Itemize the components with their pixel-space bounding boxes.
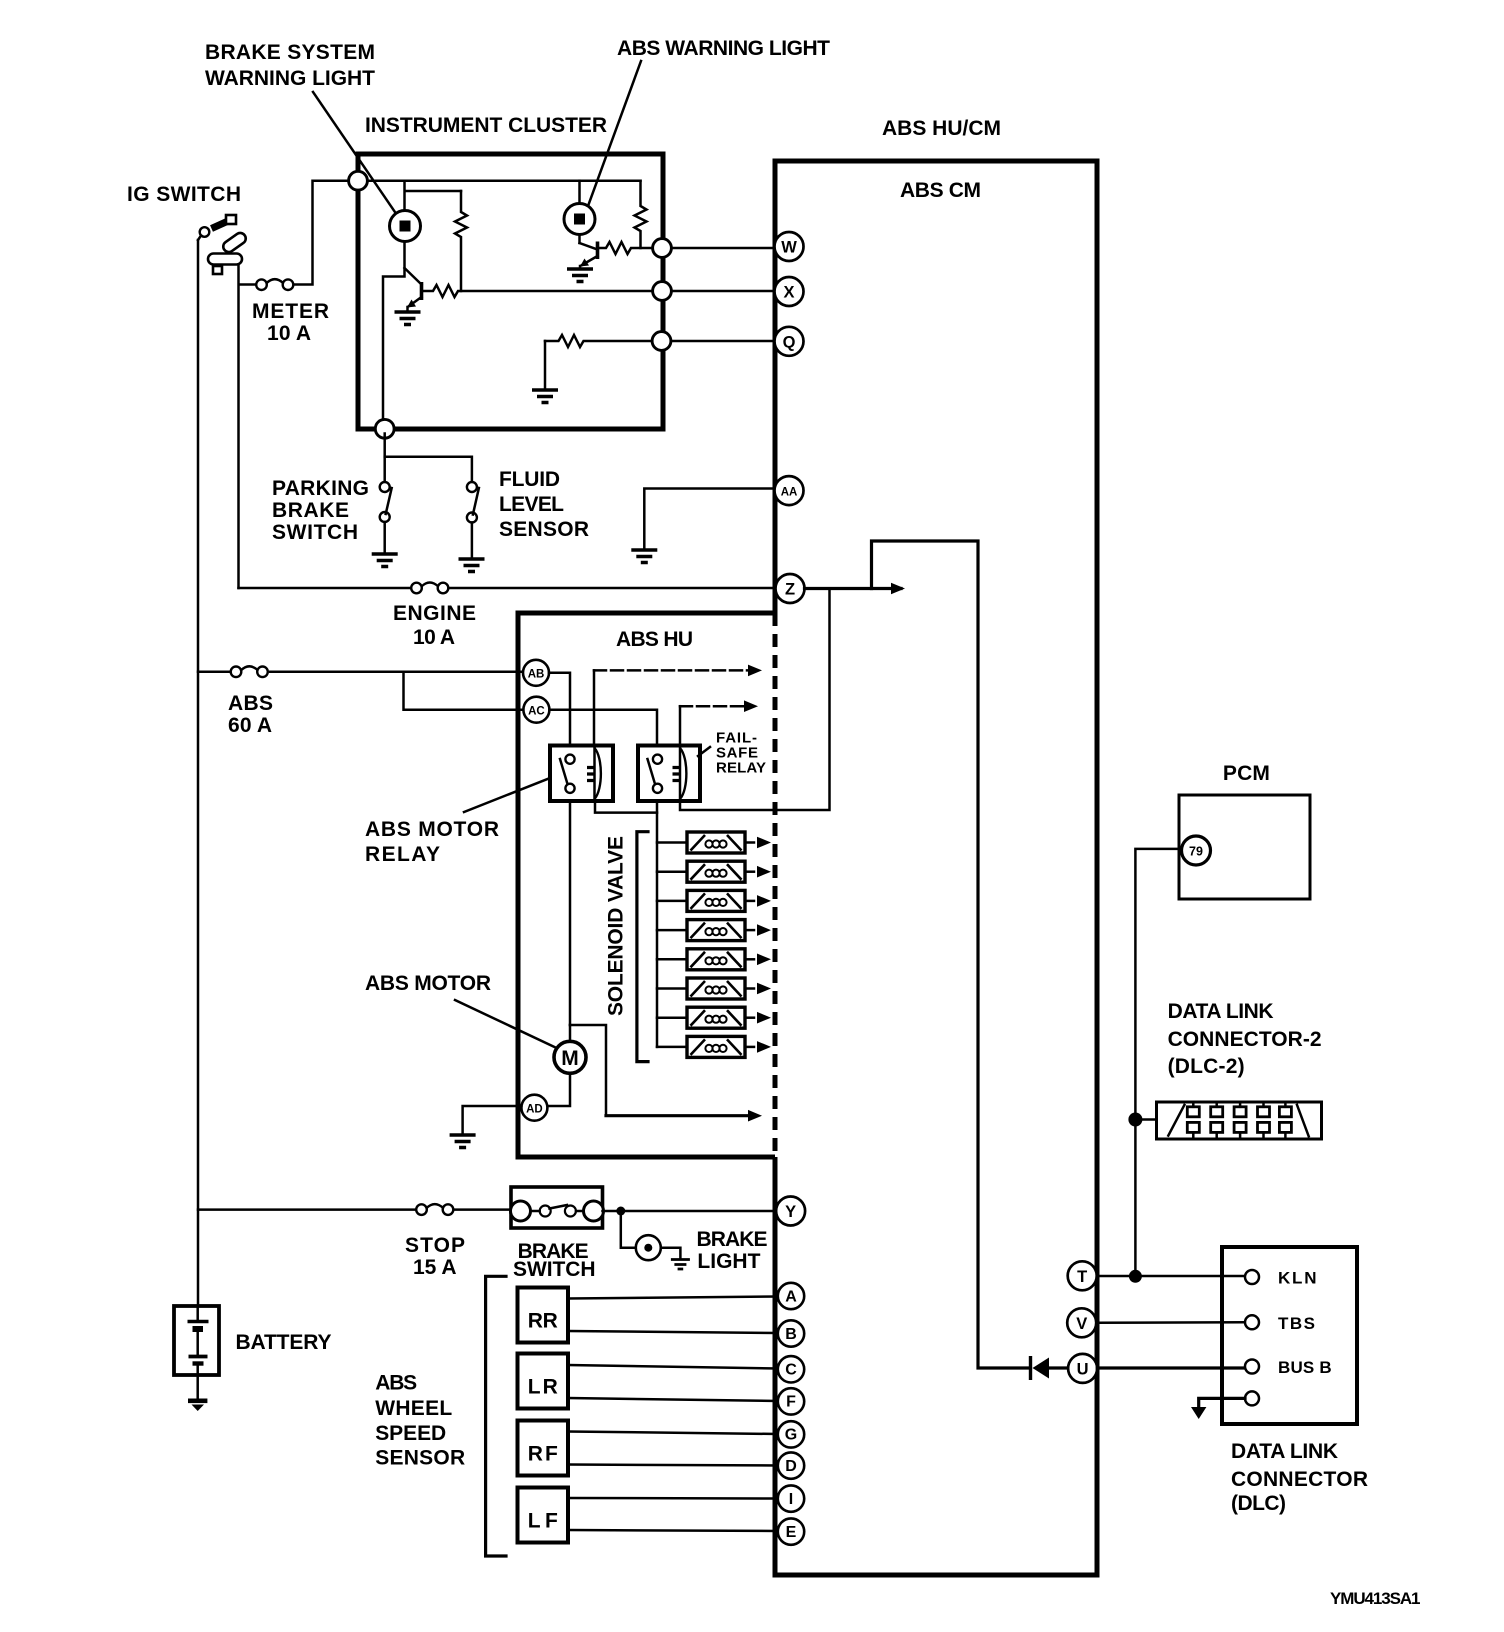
ground Q1 emitter xyxy=(395,312,421,325)
resistor R4 base W line xyxy=(598,242,667,254)
wire ABS 60A feed xyxy=(198,672,523,710)
svg-text:SWITCH: SWITCH xyxy=(513,1258,596,1281)
svg-text:(DLC-2): (DLC-2) xyxy=(1168,1055,1245,1078)
wire lamp1 bottom xyxy=(383,242,405,425)
svg-text:B: B xyxy=(785,1326,797,1343)
ABS HU/CM box xyxy=(775,161,1097,1575)
svg-text:WARNING LIGHT: WARNING LIGHT xyxy=(205,67,375,90)
connector A xyxy=(778,1283,804,1309)
junction DLC-2 xyxy=(1128,1113,1142,1127)
ground Q line xyxy=(532,390,558,403)
wire motor relay coil drive (dashed arrow) xyxy=(593,670,596,745)
svg-text:ABS HU: ABS HU xyxy=(616,628,693,651)
svg-text:ABS HU/CM: ABS HU/CM xyxy=(882,117,1001,140)
svg-text:PARKING: PARKING xyxy=(272,477,369,500)
fuse ENGINE 10A xyxy=(411,583,448,594)
wire solenoid arrow 3 xyxy=(746,900,758,903)
svg-text:(DLC): (DLC) xyxy=(1231,1492,1286,1515)
wire LR outputs xyxy=(568,1365,778,1401)
wire solenoid arrow 6 xyxy=(746,987,758,990)
node Q xyxy=(652,332,671,351)
wire V to TBS xyxy=(1096,1321,1245,1324)
wire brake light ground xyxy=(661,1248,680,1259)
wire engine line to Z xyxy=(239,587,776,590)
svg-text:DATA LINK: DATA LINK xyxy=(1168,1000,1274,1023)
wire solenoid stub 2 xyxy=(657,870,686,873)
wire solenoid stub 8 xyxy=(657,1046,686,1049)
svg-text:ABS WARNING LIGHT: ABS WARNING LIGHT xyxy=(617,37,830,60)
svg-text:LIGHT: LIGHT xyxy=(697,1250,760,1273)
wire Q ground stem xyxy=(544,341,547,389)
DLC-2 pin bottom xyxy=(1279,1122,1291,1132)
solenoid valve 8 xyxy=(687,1036,745,1057)
svg-text:BUS B: BUS B xyxy=(1278,1358,1332,1377)
connector F xyxy=(778,1388,804,1414)
junction T wire xyxy=(1129,1270,1142,1283)
connector C xyxy=(778,1356,804,1382)
svg-text:15 A: 15 A xyxy=(413,1256,457,1279)
svg-text:BRAKE: BRAKE xyxy=(697,1228,768,1251)
wire AB to motor relay switch xyxy=(549,673,570,746)
ground brake light xyxy=(671,1260,690,1270)
svg-text:KLN: KLN xyxy=(1278,1269,1317,1288)
connector AA xyxy=(775,476,804,505)
svg-text:TBS: TBS xyxy=(1278,1314,1315,1333)
wire solenoid stub 1 xyxy=(657,841,686,844)
solenoid valve 3 xyxy=(687,890,745,911)
wire Z up-over to U bus xyxy=(872,541,1030,1368)
relay ABS motor relay xyxy=(550,746,613,802)
svg-text:X: X xyxy=(783,284,794,302)
wire motor relay coil return xyxy=(595,801,657,813)
svg-text:BRAKE SYSTEM: BRAKE SYSTEM xyxy=(205,41,375,64)
ground Q2 emitter xyxy=(567,269,593,282)
wire M bottom to AD xyxy=(547,1074,570,1107)
wheel speed sensor LF xyxy=(518,1488,569,1543)
lamp brake system warning light xyxy=(390,211,421,242)
svg-text:ABS: ABS xyxy=(228,692,273,715)
wire solenoid arrow 8 xyxy=(746,1046,758,1049)
solenoid valve 4 xyxy=(687,920,745,941)
ground AA xyxy=(631,550,657,563)
wire AA xyxy=(644,489,775,549)
fluid level sensor switch xyxy=(467,482,477,492)
leader brake system warning light xyxy=(313,92,397,215)
wire Q out xyxy=(662,340,776,343)
leader ABS motor xyxy=(455,1000,557,1048)
wire brake switch to Y xyxy=(603,1210,777,1213)
DLC pin ground xyxy=(1245,1391,1259,1405)
svg-text:D: D xyxy=(785,1458,797,1475)
svg-text:INSTRUMENT CLUSTER: INSTRUMENT CLUSTER xyxy=(365,114,607,137)
svg-text:C: C xyxy=(785,1362,797,1379)
svg-text:10 A: 10 A xyxy=(413,626,455,649)
wire motor relay switch to M xyxy=(569,801,572,1025)
diode D1 xyxy=(1029,1356,1032,1380)
DLC-2 pin bottom xyxy=(1187,1122,1199,1132)
wire solenoid arrow 2 xyxy=(746,870,758,873)
svg-text:E: E xyxy=(786,1524,797,1541)
resistor R2 xyxy=(635,181,647,248)
bracket wheel speed sensors xyxy=(486,1276,506,1556)
svg-text:V: V xyxy=(1076,1315,1087,1333)
wire cluster top bus xyxy=(358,179,641,182)
wire solenoid stub 6 xyxy=(657,987,686,990)
wheel speed sensor RF xyxy=(518,1421,569,1476)
wire RF outputs xyxy=(568,1432,778,1466)
svg-text:SPEED: SPEED xyxy=(375,1422,446,1445)
svg-text:CONNECTOR: CONNECTOR xyxy=(1231,1468,1368,1491)
DLC-2 pin top xyxy=(1234,1107,1246,1117)
wire solenoid stub 3 xyxy=(657,900,686,903)
svg-text:Y: Y xyxy=(785,1203,796,1221)
transistor Q1 xyxy=(405,268,422,285)
svg-text:RELAY: RELAY xyxy=(716,760,766,777)
wire battery main vertical xyxy=(197,240,200,1306)
wire solenoid stub 5 xyxy=(657,958,686,961)
parking brake switch xyxy=(383,434,386,483)
svg-text:ENGINE: ENGINE xyxy=(393,602,476,625)
wire DLC ground xyxy=(1199,1398,1245,1407)
wire solenoid stub 4 xyxy=(657,929,686,932)
ABS HU box xyxy=(518,613,775,1157)
fuse ABS 60A xyxy=(231,666,268,677)
DLC box xyxy=(1222,1247,1357,1424)
svg-text:W: W xyxy=(781,239,797,257)
ground fluid level sensor xyxy=(459,559,485,572)
svg-text:SENSOR: SENSOR xyxy=(499,518,589,541)
svg-text:LR: LR xyxy=(528,1376,558,1399)
connector E xyxy=(778,1518,804,1544)
svg-text:IG SWITCH: IG SWITCH xyxy=(127,183,241,206)
ground battery arrow xyxy=(196,1375,199,1398)
DLC-2 pin top xyxy=(1279,1107,1291,1117)
wire Z right with arrow xyxy=(805,587,902,590)
connector AB xyxy=(523,660,549,686)
svg-text:ABS MOTOR: ABS MOTOR xyxy=(365,972,491,995)
wire LF outputs xyxy=(568,1498,778,1531)
connector T xyxy=(1068,1261,1097,1290)
svg-text:AD: AD xyxy=(526,1103,543,1115)
svg-text:AB: AB xyxy=(528,669,545,681)
motor M ABS motor xyxy=(554,1041,586,1073)
svg-text:METER: METER xyxy=(252,300,329,323)
solenoid valve 6 xyxy=(687,978,745,999)
fuse METER 10A xyxy=(256,279,293,290)
svg-text:RELAY: RELAY xyxy=(365,843,440,866)
solenoid valve 5 xyxy=(687,949,745,970)
DLC pin KLN xyxy=(1245,1270,1259,1284)
svg-text:F: F xyxy=(786,1394,796,1411)
wire cluster feed from METER fuse xyxy=(239,181,350,588)
wire lamp1 branch xyxy=(405,181,462,211)
wire solenoid arrow 5 xyxy=(746,958,758,961)
wire lamp2 bottom xyxy=(578,235,581,244)
DLC-2 pin bottom xyxy=(1258,1122,1270,1132)
svg-text:WHEEL: WHEEL xyxy=(375,1397,452,1420)
wire switch link xyxy=(385,457,472,483)
DLC-2 pin top xyxy=(1258,1107,1270,1117)
lamp ABS warning light xyxy=(564,204,595,235)
connector G xyxy=(778,1421,804,1447)
svg-text:AA: AA xyxy=(781,487,798,499)
svg-text:ABS: ABS xyxy=(375,1372,417,1395)
resistor R3 base X line xyxy=(422,285,664,297)
wire AC to fail-safe switch xyxy=(549,710,657,746)
wire solenoid stub 7 xyxy=(657,1016,686,1019)
resistor R1 xyxy=(455,191,467,291)
wire fail-safe coil drive (dashed arrow) xyxy=(679,706,682,745)
connector V xyxy=(1067,1308,1096,1337)
solenoid valve 7 xyxy=(687,1007,745,1028)
brake light xyxy=(636,1235,661,1260)
DLC-2 connector symbol xyxy=(1157,1102,1322,1139)
svg-text:ABS CM: ABS CM xyxy=(900,179,981,202)
instrument cluster box xyxy=(358,154,663,429)
svg-text:10 A: 10 A xyxy=(267,322,311,345)
connector AC xyxy=(523,697,549,723)
wire solenoid arrow 7 xyxy=(746,1016,758,1019)
svg-text:RR: RR xyxy=(528,1310,558,1333)
svg-text:RF: RF xyxy=(528,1443,558,1466)
svg-text:LEVEL: LEVEL xyxy=(499,493,564,516)
svg-text:CONNECTOR-2: CONNECTOR-2 xyxy=(1168,1028,1322,1051)
wire junction to DLC-2 xyxy=(1135,1118,1156,1121)
svg-text:M: M xyxy=(561,1047,579,1070)
svg-text:BRAKE: BRAKE xyxy=(272,499,349,522)
relay fail-safe relay xyxy=(638,746,700,802)
wire to brake light xyxy=(621,1211,636,1248)
wire lamp2 branch xyxy=(578,181,581,204)
svg-text:SWITCH: SWITCH xyxy=(272,521,358,544)
ground parking brake xyxy=(372,554,398,567)
DLC pin BUS B xyxy=(1245,1360,1259,1374)
DLC-2 pin top xyxy=(1187,1107,1199,1117)
wire M monitor to CM xyxy=(570,1025,606,1116)
connector 79 xyxy=(1182,836,1211,865)
DLC-2 pin bottom xyxy=(1211,1122,1223,1132)
svg-text:YMU413SA1: YMU413SA1 xyxy=(1330,1589,1421,1608)
wire RR outputs xyxy=(568,1297,778,1334)
connector Q xyxy=(775,327,804,356)
svg-text:Z: Z xyxy=(785,581,795,599)
wire solenoid bus xyxy=(656,801,659,1047)
fuse STOP 15A xyxy=(416,1204,453,1215)
resistor R5 Q line xyxy=(545,335,663,347)
connector D xyxy=(778,1452,804,1478)
wire W out xyxy=(663,247,776,250)
wire brake feed line xyxy=(198,1208,511,1211)
svg-text:60 A: 60 A xyxy=(228,714,272,737)
bracket solenoid valve xyxy=(637,832,648,1062)
svg-text:T: T xyxy=(1077,1268,1087,1286)
svg-text:BATTERY: BATTERY xyxy=(236,1331,332,1354)
DLC pin TBS xyxy=(1245,1315,1259,1329)
wheel speed sensor RR xyxy=(518,1288,569,1343)
svg-text:G: G xyxy=(785,1427,797,1444)
svg-text:79: 79 xyxy=(1189,845,1203,859)
node W xyxy=(653,239,672,258)
ABS HU/CM dashed shared edge xyxy=(773,613,778,1157)
node cluster bottom xyxy=(375,419,394,438)
wire X out xyxy=(663,290,776,293)
DLC-2 pin top xyxy=(1211,1107,1223,1117)
wire T to KLN xyxy=(1097,1275,1245,1278)
connector Y xyxy=(776,1197,805,1226)
connector B xyxy=(778,1320,804,1346)
ig switch xyxy=(200,227,210,237)
transistor Q2 xyxy=(580,243,598,250)
svg-text:PCM: PCM xyxy=(1223,762,1270,785)
wire Z to fail-safe coil return xyxy=(680,589,830,811)
connector Z xyxy=(776,574,805,603)
solenoid valve 2 xyxy=(687,861,745,882)
wire AD to ground xyxy=(463,1106,522,1133)
svg-text:I: I xyxy=(789,1491,793,1508)
wire U to BUS B xyxy=(1097,1366,1245,1369)
brake switch xyxy=(511,1187,603,1228)
svg-text:STOP: STOP xyxy=(405,1234,465,1257)
leader ABS warning light xyxy=(588,61,641,206)
solenoid valve 1 xyxy=(687,832,745,853)
wire solenoid arrow 4 xyxy=(746,929,758,932)
svg-text:ABS MOTOR: ABS MOTOR xyxy=(365,818,499,841)
connector I xyxy=(778,1485,804,1511)
svg-text:SENSOR: SENSOR xyxy=(375,1447,465,1470)
wheel speed sensor LR xyxy=(518,1354,569,1409)
connector AD xyxy=(521,1095,547,1121)
node X xyxy=(653,282,672,301)
connector W xyxy=(775,232,804,261)
ground ABS HU xyxy=(450,1135,476,1148)
svg-text:Q: Q xyxy=(783,333,796,351)
svg-text:DATA LINK: DATA LINK xyxy=(1231,1440,1338,1463)
wire M top stub xyxy=(569,1025,572,1042)
svg-text:U: U xyxy=(1077,1360,1089,1378)
node cluster feed xyxy=(349,171,368,190)
connector X xyxy=(775,277,804,306)
svg-text:SOLENOID VALVE: SOLENOID VALVE xyxy=(605,836,628,1016)
leader fail-safe relay xyxy=(698,747,710,756)
battery xyxy=(174,1306,219,1375)
svg-text:A: A xyxy=(785,1288,797,1305)
svg-text:AC: AC xyxy=(528,705,545,717)
DLC-2 pin bottom xyxy=(1234,1122,1246,1132)
connector U xyxy=(1068,1354,1097,1383)
junction brake light xyxy=(616,1207,625,1216)
leader ABS motor relay xyxy=(464,778,550,812)
PCM box xyxy=(1179,795,1310,899)
svg-text:FLUID: FLUID xyxy=(499,468,560,491)
wire PCM/DLC2 drop xyxy=(1135,849,1181,1276)
wire solenoid arrow 1 xyxy=(746,841,758,844)
